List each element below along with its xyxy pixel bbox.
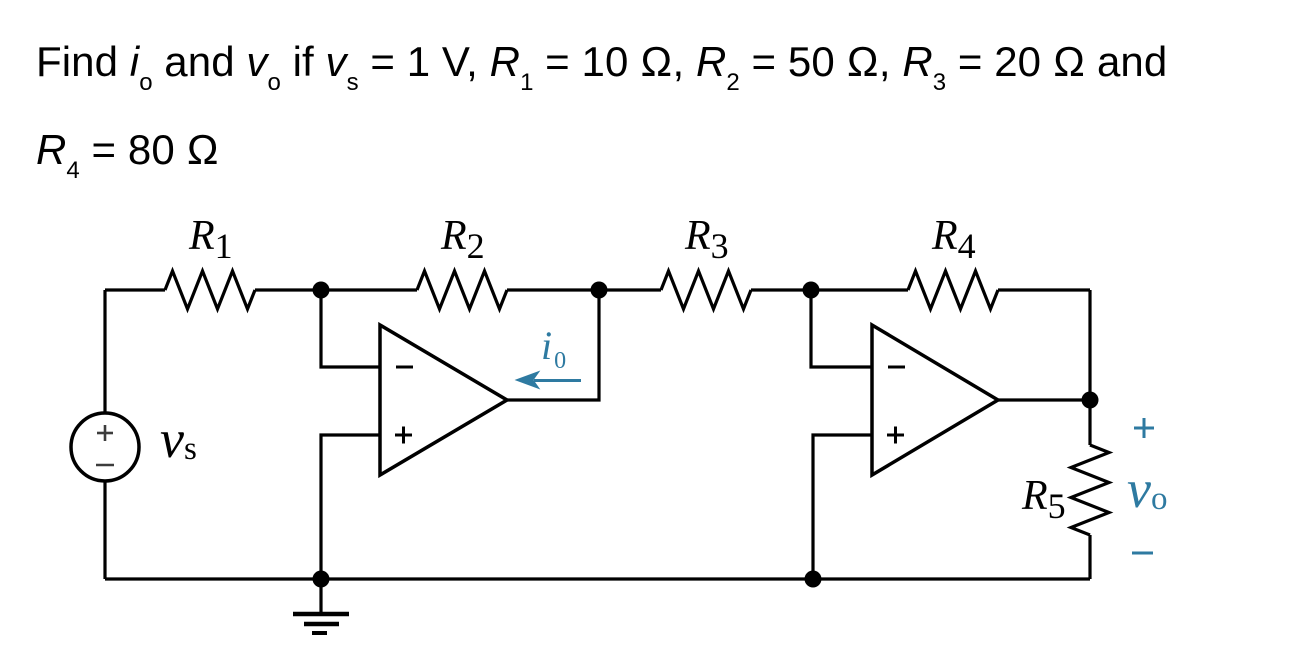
resistor R3 (661, 271, 751, 309)
wire top rail between R3 and R4 (751, 288, 908, 291)
wire U1 output (507, 290, 599, 400)
svg-text:vo: vo (1127, 459, 1167, 519)
title line 2 (36, 126, 219, 174)
wire right rail upper (1088, 290, 1091, 400)
svg-text:vs: vs (160, 409, 197, 469)
title line 1 (36, 38, 1167, 86)
label vo plus (1134, 418, 1154, 438)
wire top rail right segment (998, 288, 1090, 291)
svg-text:R1: R1 (188, 213, 233, 266)
wire U2 output (998, 398, 1090, 401)
node B (R2-R3 junction) (591, 282, 608, 299)
node F (vo output node) (1082, 392, 1099, 409)
resistor R1 (165, 271, 255, 309)
wire U1 inverting input (321, 290, 380, 367)
resistor R2 (417, 271, 507, 309)
svg-text:R3: R3 (684, 213, 729, 266)
wire U2 noninverting input (813, 435, 872, 579)
current arrow io (516, 372, 581, 389)
svg-text:R5: R5 (1021, 473, 1066, 526)
node E (bottom rail junction) (805, 571, 822, 588)
voltage source vs (71, 413, 139, 481)
node C (R3-R4 junction) (803, 282, 820, 299)
wire left rail lower (103, 481, 106, 579)
wire top rail between R1 and R2 (255, 288, 417, 291)
wire top rail left segment (105, 288, 165, 291)
resistor R5 (1071, 445, 1109, 535)
node A (R1-R2 junction) (313, 282, 330, 299)
ground (293, 579, 349, 633)
wire bottom rail (105, 577, 1090, 580)
svg-text:R2: R2 (440, 213, 485, 266)
op-amp U2 (872, 325, 998, 475)
svg-text:R4: R4 (931, 213, 976, 266)
wire U1 noninverting input (321, 435, 380, 579)
wire U2 inverting input (811, 290, 872, 367)
svg-text:i0: i0 (541, 323, 566, 374)
node D (ground junction) (313, 571, 330, 588)
resistor R4 (908, 271, 998, 309)
wire top rail between R2 and R3 (507, 288, 661, 291)
wire right rail lower (1088, 535, 1091, 579)
label vo minus (1132, 552, 1153, 555)
wire left rail upper (103, 290, 106, 413)
op-amp U1 (380, 325, 507, 475)
wire right rail to R5 (1088, 400, 1091, 445)
